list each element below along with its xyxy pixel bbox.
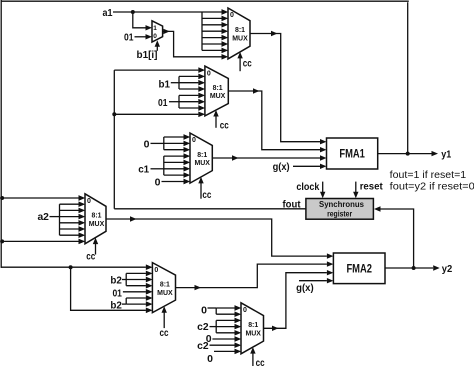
U2 select line cc (215, 115, 217, 128)
wire fout to U2 input 0 (114, 69, 198, 71)
wire fout from register to riser (114, 208, 306, 210)
svg-text:0: 0 (192, 137, 196, 144)
svg-text:01: 01 (158, 97, 168, 109)
wire U1 bus stubs to inputs 1-6 (202, 17, 222, 19)
svg-text:0: 0 (207, 70, 211, 77)
svg-text:fout=1 if reset=1: fout=1 if reset=1 (390, 169, 467, 181)
svg-text:0: 0 (154, 267, 158, 274)
svg-text:a1: a1 (103, 7, 113, 19)
wire clock arrow into register (322, 182, 324, 193)
U6 select line cc (252, 352, 254, 366)
wire feedback drop to U5 input 7 (71, 267, 146, 310)
op-amp-style 8:1 multiplexer U5 body (152, 263, 175, 313)
wire U5 output to FMA2 input 2 (176, 264, 327, 288)
U0 select line b1[i] (156, 46, 158, 51)
U1 input pin arrowheads (222, 9, 229, 14)
wire g(x) to FMA2 input 4 (299, 280, 327, 282)
wire y1 feedback: right vertical from FMA1 output node up (407, 2, 409, 153)
wire fout branch to U2 input 7 (114, 113, 198, 115)
wire U4 output to FMA2 input 1 (106, 219, 327, 256)
node: left feedback junction upper (0, 196, 4, 200)
wire b1 bracket to U2 inputs 1-3 (171, 82, 179, 84)
U5 input pin arrowheads (146, 265, 153, 270)
svg-text:8:1: 8:1 (160, 281, 170, 288)
block FMA1 (327, 138, 378, 169)
wire fout riser vertical (113, 70, 115, 209)
svg-text:g(x): g(x) (296, 282, 314, 294)
svg-text:cc: cc (256, 358, 265, 366)
wire feedback bottom horizontal to U5 input 0 (1, 266, 146, 268)
svg-text:0: 0 (155, 177, 161, 189)
svg-text:MUX: MUX (232, 36, 248, 43)
U5 select line cc (163, 311, 165, 328)
op-amp-style 8:1 multiplexer U6 body (241, 303, 264, 354)
wire 0 bracket to U6 inputs 0-1 (208, 307, 217, 309)
svg-text:01: 01 (112, 288, 122, 300)
svg-text:register: register (327, 208, 353, 218)
wire FMA1 output to y1 (378, 153, 432, 155)
svg-text:cc: cc (220, 120, 229, 131)
svg-text:0: 0 (144, 139, 150, 151)
wire feedback to U4 input 7 (2, 240, 78, 242)
wire 0 to U6 input 5 (212, 338, 234, 340)
U3 select line cc (200, 182, 202, 199)
svg-text:g(x): g(x) (273, 161, 290, 173)
node: bottom feedback branch junction (69, 265, 73, 269)
svg-text:0: 0 (153, 33, 157, 40)
svg-text:8:1: 8:1 (213, 85, 223, 92)
wire 0 to U3 input 7 (162, 181, 184, 183)
U4 select line cc (95, 243, 97, 255)
U6 input pin arrowheads (235, 305, 242, 310)
svg-text:reset: reset (360, 181, 383, 193)
svg-text:c2: c2 (197, 340, 209, 352)
svg-text:cc: cc (86, 251, 95, 262)
svg-text:y1: y1 (441, 149, 451, 161)
op-amp-style 8:1 multiplexer U3 body (190, 133, 212, 183)
op-amp-style 8:1 multiplexer U1 body (228, 8, 250, 59)
svg-text:8:1: 8:1 (235, 27, 245, 34)
U4 input pin arrowheads (79, 195, 86, 200)
wire a1 to U1 input 0 (113, 11, 222, 13)
wire y2 feedback into register (380, 209, 414, 268)
wire U6 output to FMA2 input 3 (264, 273, 327, 329)
U1 select line cc (239, 57, 241, 71)
wire U0 output to U1 input 7 (163, 31, 222, 56)
svg-text:FMA2: FMA2 (346, 263, 372, 275)
svg-text:MUX: MUX (89, 221, 105, 228)
wire U1 input bus bar from a1 (201, 12, 203, 50)
svg-text:MUX: MUX (157, 290, 173, 297)
wire a2 bracket to U4 inputs 1-6 (50, 216, 60, 218)
svg-text:MUX: MUX (194, 160, 210, 167)
svg-text:b1[i]: b1[i] (137, 49, 158, 61)
op-amp-style 8:1 multiplexer U4 body (85, 194, 106, 244)
wire a1 branch down into U0 input 1 (133, 12, 147, 28)
svg-text:b1: b1 (158, 78, 170, 90)
svg-text:0: 0 (230, 12, 234, 19)
2:1 multiplexer U0 body (152, 21, 163, 42)
svg-text:0: 0 (201, 304, 207, 316)
node: a1 branch junction (131, 10, 135, 14)
svg-text:8:1: 8:1 (92, 213, 102, 220)
svg-text:b2: b2 (110, 300, 122, 312)
wire b2 bracket to U5 inputs 5-6 (122, 303, 126, 305)
wire U3 output to FMA1 input 3 (212, 157, 320, 159)
wire FMA2 output to y2 (385, 267, 433, 269)
wire b2 bracket to U5 inputs 1-3 (122, 279, 126, 281)
wire c2 bracket to U6 inputs 2-4 (210, 326, 217, 328)
svg-text:clock: clock (296, 181, 319, 193)
wire c1 bracket to U3 inputs 3-6 (151, 168, 164, 170)
svg-text:MUX: MUX (245, 331, 261, 338)
svg-text:b2: b2 (110, 274, 122, 286)
node: y2 feedback junction (412, 266, 416, 270)
svg-text:fout=y2 if reset=0: fout=y2 if reset=0 (390, 180, 474, 192)
node: fout branch junction (112, 112, 116, 116)
wire y1 feedback: top border horizontal (1, 0, 409, 2)
wire U1 output to FMA1 input 1 (250, 34, 320, 142)
svg-text:8:1: 8:1 (248, 322, 258, 329)
wire 0 bracket to U3 inputs 0-2 (151, 142, 164, 144)
wire 01 to U5 input 4 (123, 291, 146, 293)
svg-text:0: 0 (243, 307, 247, 314)
node: left feedback junction lower (0, 239, 4, 243)
wire y1 feedback: left border vertical (0, 0, 2, 268)
U2 input pin arrowheads (198, 67, 205, 72)
node: y1 feedback junction (406, 152, 410, 156)
svg-text:0: 0 (87, 198, 91, 205)
svg-text:FMA1: FMA1 (339, 149, 365, 161)
svg-text:a2: a2 (37, 211, 49, 223)
op-amp-style 8:1 multiplexer U2 body (205, 66, 228, 116)
svg-text:8:1: 8:1 (197, 152, 207, 159)
wire U2 output to FMA1 input 2 (228, 91, 320, 150)
svg-text:c1: c1 (138, 164, 149, 176)
wire feedback to U4 input 0 (2, 197, 78, 199)
U3 input pin arrowheads (184, 134, 191, 139)
wire c2 to U6 input 6 (210, 344, 235, 346)
wire reset arrow into register (355, 182, 357, 193)
wire 0 to U6 input 7 (214, 350, 235, 352)
svg-text:1: 1 (153, 25, 157, 32)
wire g(x) to FMA1 input 4 (293, 165, 320, 167)
svg-text:cc: cc (243, 58, 252, 69)
wire 01 bracket to U2 inputs 4-6 (169, 101, 179, 103)
svg-text:y2: y2 (442, 263, 453, 275)
svg-text:01: 01 (124, 31, 134, 43)
svg-text:cc: cc (160, 328, 169, 339)
block synchronous register (306, 199, 374, 220)
svg-text:cc: cc (202, 190, 211, 201)
wire 01 into U0 input 0 (135, 36, 147, 38)
svg-text:c2: c2 (197, 321, 209, 333)
block FMA2 (333, 253, 385, 284)
svg-text:0: 0 (207, 353, 213, 365)
svg-text:MUX: MUX (210, 93, 226, 100)
